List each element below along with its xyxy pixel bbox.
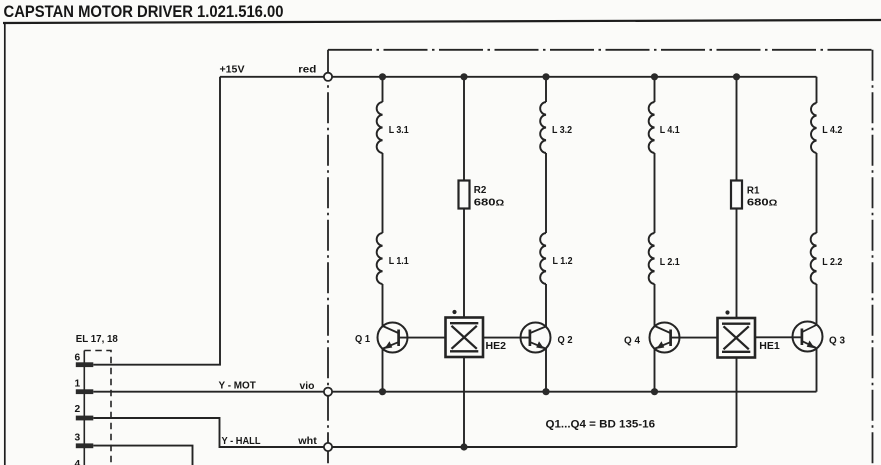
branch 5 wire <box>736 77 738 318</box>
resistor R1 <box>731 181 742 209</box>
HE1 polarity dot <box>725 310 729 314</box>
inductor L3.2 <box>540 102 546 153</box>
transistor Q4 <box>650 323 718 353</box>
svg-text:4: 4 <box>75 459 81 465</box>
svg-text:Q 1: Q 1 <box>355 334 370 345</box>
svg-text:+15V: +15V <box>220 65 245 76</box>
branch 4 collector wire <box>654 77 656 326</box>
pin 1 contact <box>76 389 94 394</box>
junction +15V/B2 <box>460 73 467 80</box>
connector dashed outline <box>84 351 111 465</box>
wire Q4 emitter <box>654 349 656 392</box>
wire Q3 emitter <box>816 348 818 392</box>
node vio boundary circle <box>324 388 332 396</box>
inductor L1.1 <box>377 233 383 284</box>
svg-text:1: 1 <box>75 379 81 390</box>
hall element HE2 <box>446 318 484 358</box>
junction +15V/B3 <box>542 73 549 80</box>
svg-text:wht: wht <box>297 436 317 447</box>
svg-text:Y - HALL: Y - HALL <box>222 436 261 447</box>
pin 3 contact <box>76 443 94 448</box>
branch 6 collector wire <box>816 77 818 326</box>
wire +15V feed from pin 6 <box>93 77 220 365</box>
node red boundary circle <box>324 73 332 81</box>
inductor L2.2 <box>811 233 817 284</box>
pin 2 contact <box>76 416 94 421</box>
transistor Q3 <box>756 322 823 352</box>
wire Q2 emitter <box>545 348 547 392</box>
inductor L3.1 <box>377 102 383 153</box>
svg-text:Q 3: Q 3 <box>829 336 845 347</box>
svg-text:L 4.2: L 4.2 <box>822 125 842 136</box>
svg-text:red: red <box>298 65 316 76</box>
pin 6 contact <box>76 362 94 367</box>
connector pin line <box>83 351 85 465</box>
svg-text:L 1.1: L 1.1 <box>389 256 409 267</box>
svg-text:680Ω: 680Ω <box>474 197 505 208</box>
hall element HE1 <box>718 318 756 358</box>
svg-text:2: 2 <box>75 404 81 415</box>
svg-text:L 3.1: L 3.1 <box>389 125 409 136</box>
inductor L4.2 <box>811 103 817 153</box>
wire +15V rail <box>220 76 817 78</box>
inductor L2.1 <box>649 233 655 284</box>
transistor Q1 <box>378 323 446 353</box>
junction +15V/B5 <box>733 73 740 80</box>
wire Q1 emitter <box>382 349 384 392</box>
svg-text:HE2: HE2 <box>486 341 507 352</box>
svg-text:Q1...Q4 = BD 135-16: Q1...Q4 = BD 135-16 <box>546 418 656 430</box>
branch 1 collector wire <box>382 77 384 326</box>
svg-text:R2: R2 <box>474 185 487 196</box>
resistor R2 <box>459 181 470 209</box>
svg-text:L 3.2: L 3.2 <box>552 125 572 136</box>
junction +15V/B1 <box>379 73 386 80</box>
HE2 polarity dot <box>452 310 456 314</box>
svg-text:vio: vio <box>300 381 315 392</box>
module boundary dash-dot left vertical <box>327 50 329 465</box>
branch 2 wire <box>463 77 465 318</box>
module boundary dash-dot right vertical <box>872 50 874 465</box>
inductor L1.2 <box>540 233 546 284</box>
frame border left <box>4 22 6 465</box>
svg-text:680Ω: 680Ω <box>747 198 778 209</box>
node wht boundary circle <box>324 443 332 451</box>
module boundary dash-dot top <box>328 49 873 51</box>
wire Y-MOT rail <box>93 391 816 393</box>
svg-text:CAPSTAN MOTOR DRIVER 1.021.516: CAPSTAN MOTOR DRIVER 1.021.516.00 <box>4 3 284 21</box>
branch 3 collector wire <box>545 77 547 327</box>
junction +15V/B4 <box>651 73 658 80</box>
wire Y-HALL from pin 2 <box>93 418 736 447</box>
svg-text:L 2.2: L 2.2 <box>822 257 842 268</box>
svg-text:EL 17, 18: EL 17, 18 <box>76 334 118 345</box>
frame border top <box>3 20 881 23</box>
svg-text:L 1.2: L 1.2 <box>553 256 573 267</box>
svg-text:Q 2: Q 2 <box>558 335 573 346</box>
wire HE1 bottom to Y-HALL <box>736 358 738 448</box>
svg-text:6: 6 <box>75 353 81 364</box>
svg-text:Y - MOT: Y - MOT <box>219 380 257 391</box>
junction Y-MOT/Q1 <box>379 388 386 395</box>
svg-text:HE1: HE1 <box>759 341 780 352</box>
wire HE2 bottom to Y-HALL <box>463 357 465 447</box>
transistor Q2 <box>483 323 551 353</box>
inductor L4.1 <box>649 102 655 153</box>
svg-text:3: 3 <box>75 433 81 444</box>
svg-text:R1: R1 <box>747 186 760 197</box>
junction Y-MOT/Q4 <box>651 388 658 395</box>
wire pin 3 stub <box>93 446 192 465</box>
svg-text:L 2.1: L 2.1 <box>660 257 680 268</box>
junction Y-HALL/HE2 <box>460 443 467 450</box>
svg-text:Q 4: Q 4 <box>624 336 640 347</box>
svg-text:L 4.1: L 4.1 <box>660 125 680 136</box>
junction Y-MOT/Q2 <box>542 388 549 395</box>
